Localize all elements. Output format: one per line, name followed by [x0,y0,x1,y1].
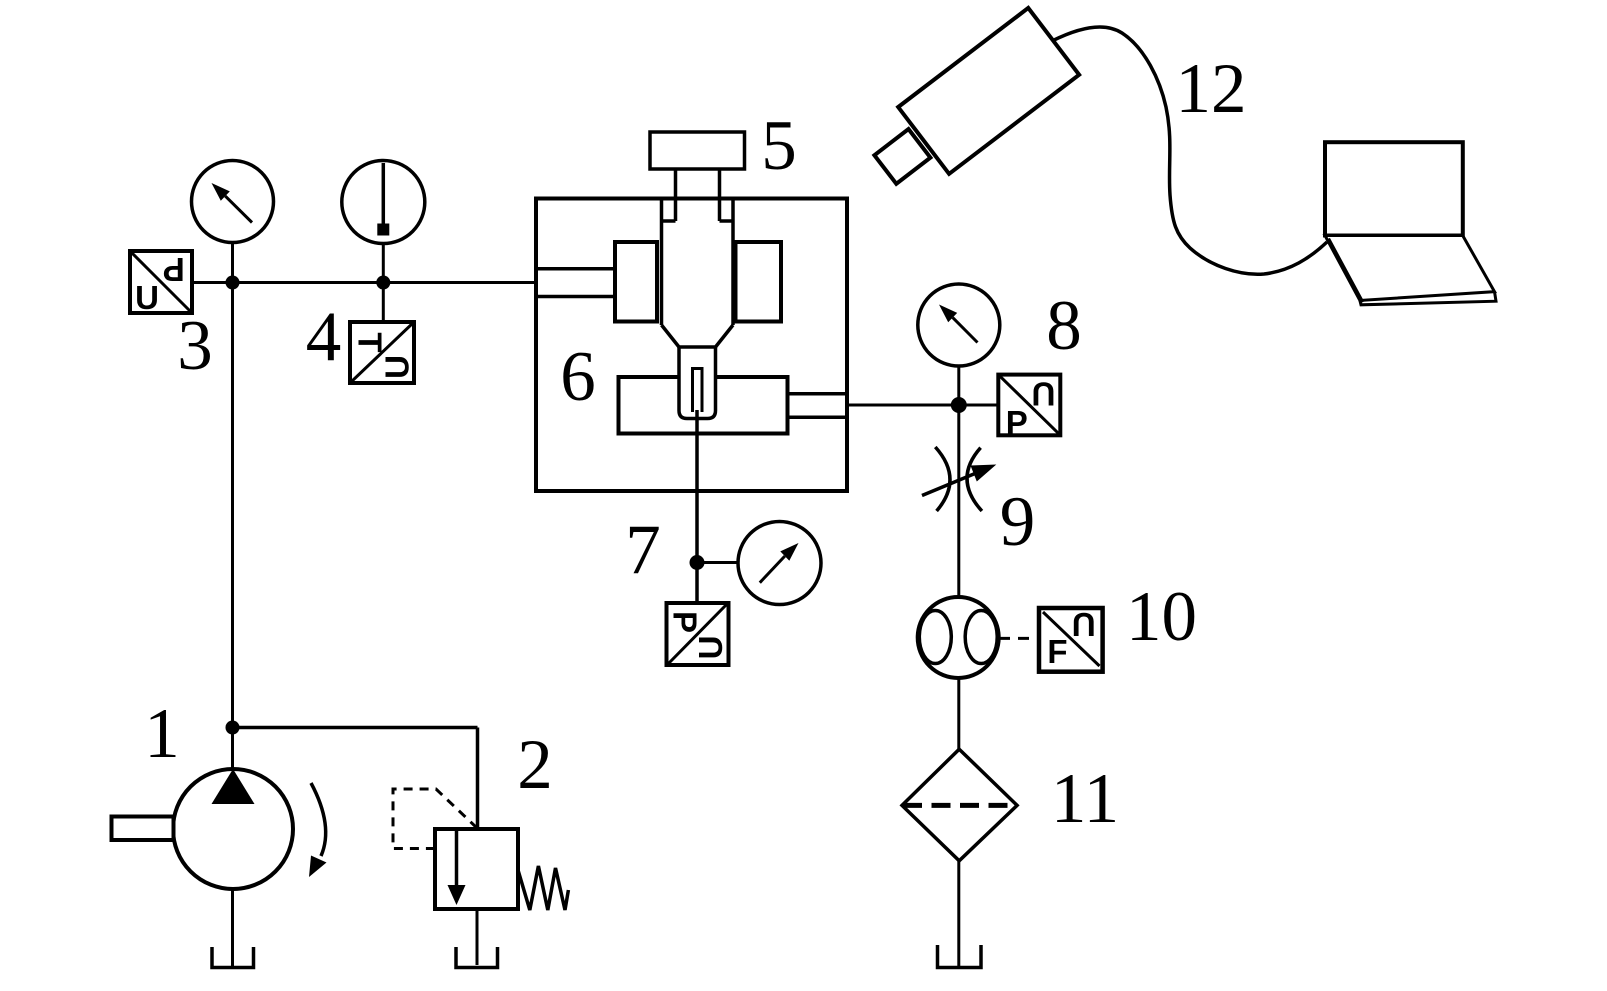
svg-text:T: T [352,332,389,352]
svg-text:U: U [135,279,159,316]
svg-text:3: 3 [177,307,213,385]
svg-text:11: 11 [1051,760,1119,838]
svg-text:5: 5 [761,107,797,185]
svg-text:U: U [692,636,729,660]
svg-text:10: 10 [1126,578,1197,656]
svg-text:P: P [163,251,185,288]
svg-text:12: 12 [1176,50,1247,128]
svg-text:U: U [379,355,416,379]
svg-text:P: P [667,611,704,633]
svg-text:F: F [1047,633,1067,670]
svg-text:7: 7 [625,511,661,589]
svg-text:8: 8 [1046,287,1082,365]
svg-text:U: U [1072,606,1096,643]
svg-text:P: P [1006,404,1028,441]
svg-text:2: 2 [517,726,553,804]
svg-text:9: 9 [1000,483,1036,561]
svg-text:4: 4 [306,298,342,376]
svg-text:U: U [1032,376,1056,413]
svg-text:1: 1 [144,695,180,773]
svg-text:6: 6 [560,338,596,416]
